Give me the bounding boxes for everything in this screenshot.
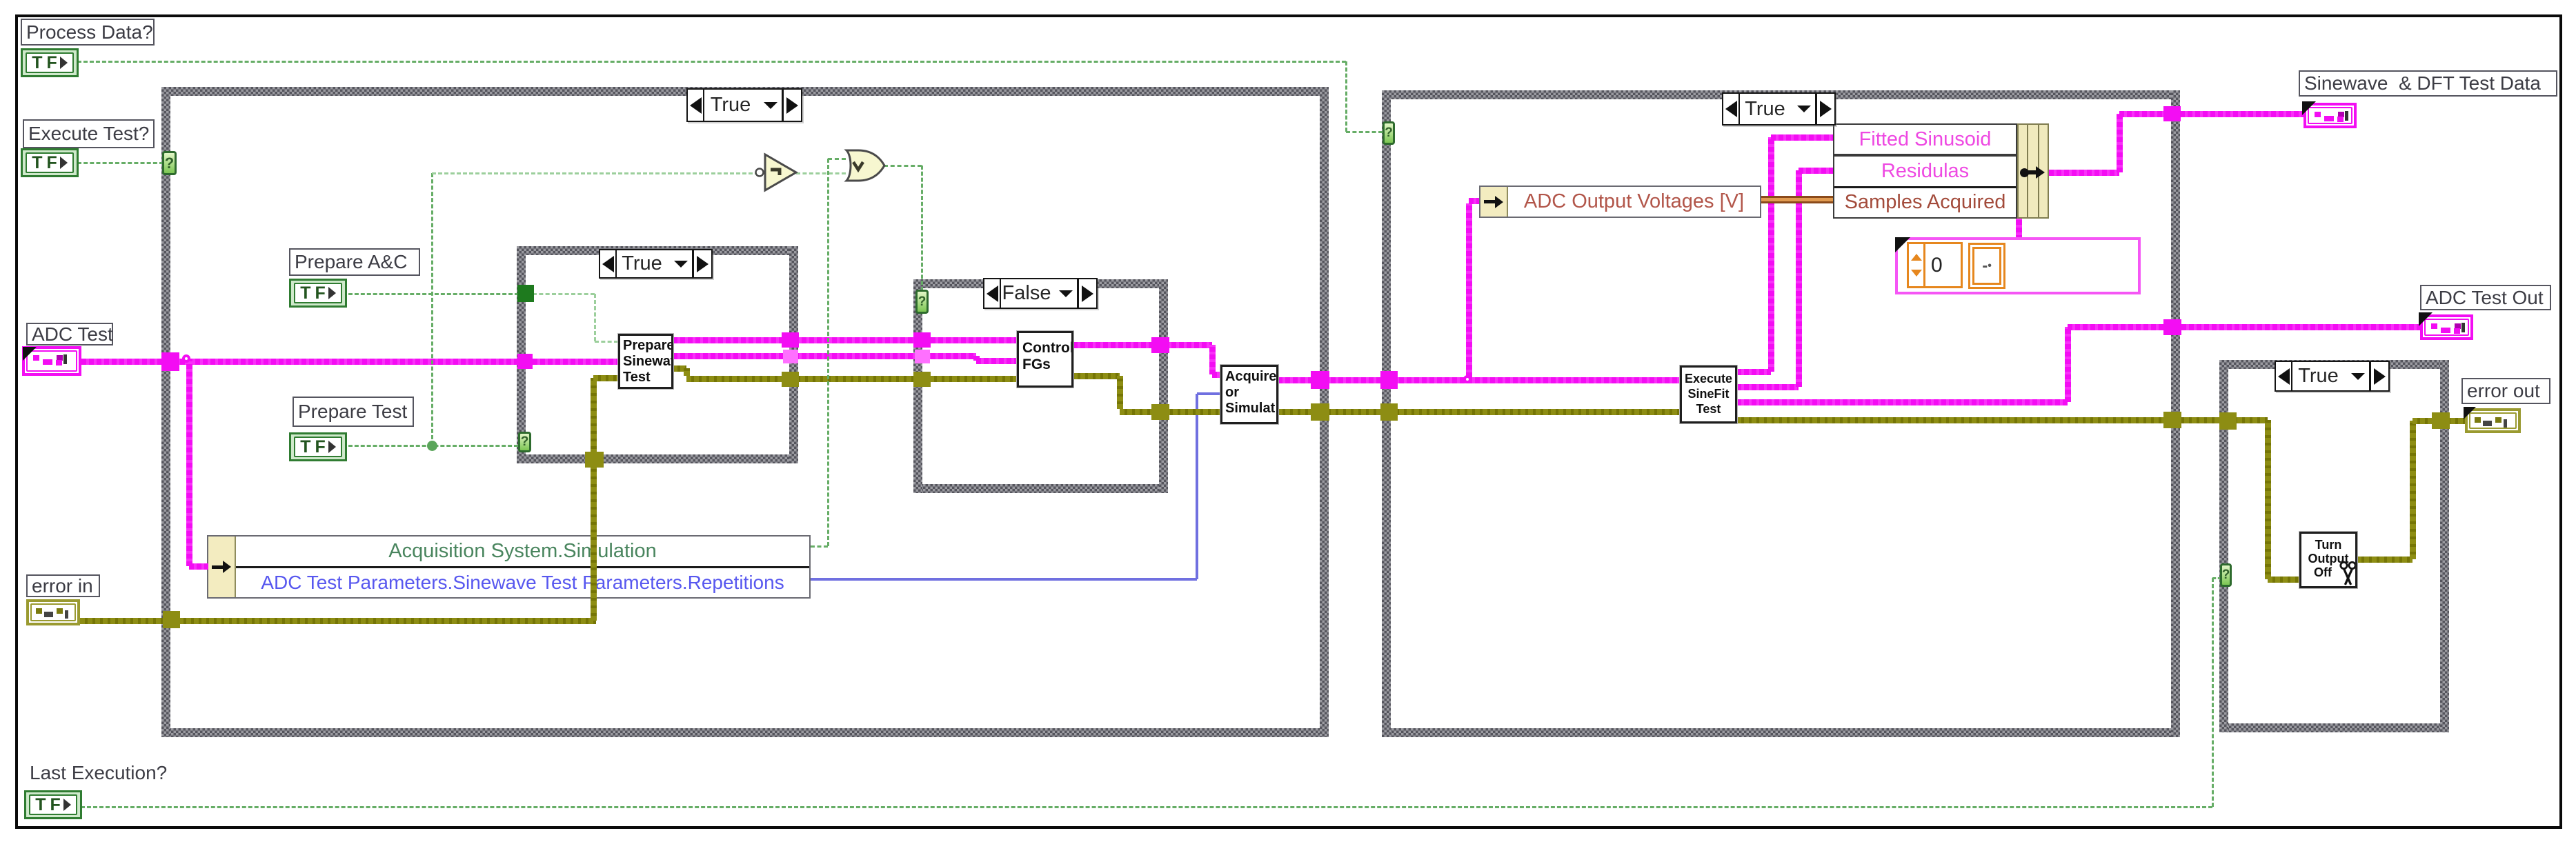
wire: Repetitions into Acquire node [1197, 392, 1220, 395]
NOT gate [756, 154, 797, 190]
wire: NOT output to OR gate [796, 172, 846, 174]
VI node: Prepare Sinewave Test [618, 334, 673, 389]
label: Execute Test? [23, 119, 155, 148]
tunnel: ADC Test on case 1 left border [161, 352, 179, 371]
wire: error out to terminal [2412, 418, 2468, 424]
wire: output 2 up to bundle [1796, 170, 1802, 387]
wire: ADC Test into Prepare Sinewave Test [525, 359, 618, 365]
wire: Execute ADC Test Out output [1736, 399, 2068, 405]
bundle output glyph [2020, 168, 2029, 177]
wire: Process Data? into case 2 selector [1346, 131, 1383, 133]
wire: Simulation output of local variable [811, 545, 828, 548]
wire: error into Acquire node [1120, 409, 1220, 415]
tunnel: error out of case 3 [2432, 412, 2450, 429]
wire: error down to Turn Output Off [2265, 420, 2271, 579]
wire: Last Execution? boolean to case 3 [81, 806, 2212, 808]
VI node: Turn Output Off [2299, 532, 2357, 588]
field Samples Acquired [1834, 188, 2016, 217]
wire: ADC Output Voltages data (orange/brown) into Samples Acquired [1761, 196, 1833, 203]
VI node: Acquire or Simulate [1220, 365, 1278, 424]
wire: Turn Output Off error output [2357, 557, 2412, 563]
tunnel: error into case 2 [1380, 403, 1398, 421]
wire: Prepare A&C vertical (light) [594, 294, 596, 341]
label: ADC Test [26, 323, 113, 345]
wire: Prepare output B [673, 353, 976, 359]
wire: ADC Test Out to terminal [2068, 324, 2420, 330]
wire: branch up to ADC Output Voltages [1466, 203, 1472, 377]
tunnel: error through inner True case bottom [585, 452, 604, 468]
case selector terminal ? (False case) [915, 290, 929, 314]
boolean control terminal: Last Execution? [24, 790, 82, 819]
wire: bundle output rise [2117, 114, 2123, 172]
case selector label: False [983, 278, 1098, 309]
case selector terminal ? (inner True case) [518, 432, 531, 452]
bundle-by-name node: Fitted Sinusoid / Residulas / Samples Acquired [1833, 123, 2049, 219]
corner wedge: array indicator [1895, 237, 1910, 252]
case selector label: True (inner case) [599, 249, 713, 279]
case selector label: True (case 3) [2275, 361, 2390, 392]
junction: branch to ADC Output Voltages [1463, 375, 1472, 383]
corner wedge: ADC Test [23, 347, 37, 361]
case structure 2 (Process Data? outer) border [0, 0, 1, 1]
cluster indicator terminal: ADC Test Out [2420, 314, 2473, 340]
tunnel: error out of False case [1151, 404, 1169, 420]
junction: ADC Test branch [182, 354, 190, 363]
wire: into OR gate top input [828, 158, 846, 160]
boolean control terminal: Prepare Test [289, 432, 347, 461]
tunnel: error out of inner True case [782, 372, 799, 387]
wire: error into Prepare node [593, 375, 618, 381]
wire: Prepare A&C to inner case tunnel [348, 293, 519, 295]
wire: ADC Test branch down to local variable [186, 361, 192, 566]
wire: Prepare A&C inside case (light) [533, 293, 595, 295]
local variable: ADC Output Voltages [V] [1479, 186, 1761, 218]
wire: Control FGs pink output [1073, 342, 1212, 348]
wire: Acquire output cluster to Execute SineFit Test [1278, 377, 1680, 383]
case selector label: True (case 2) [1722, 92, 1836, 126]
boolean control terminal: Process Data? [21, 48, 79, 77]
case structure F (inner False: Control FGs) border [0, 0, 1, 1]
wire: Control FGs error output [1073, 373, 1120, 379]
wire: Execute error output to case 3 [1736, 417, 2268, 423]
wire: pink jog down [1209, 345, 1216, 374]
label: Prepare A&C [289, 248, 420, 276]
case structure 3 (Last Execution?: Turn Output Off) border [0, 0, 1, 1]
boolean control terminal: Execute Test? [21, 148, 79, 177]
array indicator with index display [1895, 237, 2141, 294]
wire: into NOT gate [432, 172, 759, 174]
case selector terminal ? (case 2) [1383, 121, 1395, 145]
label: error out [2461, 378, 2550, 404]
wire: Repetitions vertical [1196, 394, 1198, 579]
wire: Process Data? vertical drop [1345, 61, 1347, 132]
wire: Execute output 2 [1736, 384, 1799, 390]
wire: into Fitted Sinusoid field [1771, 134, 1833, 141]
wire: error rise [2410, 421, 2416, 559]
wire: Prepare A&C into node (light) [595, 341, 618, 343]
wire: Last Execution? into case 3 selector [2212, 577, 2221, 579]
wire: bundle output [2049, 170, 2119, 176]
label: Prepare Test [293, 397, 414, 427]
VI node: Control FGs [1017, 331, 1073, 388]
field Fitted Sinusoid [1834, 125, 2016, 157]
wire: OR output down to False case selector [921, 166, 923, 291]
tunnel: error into False case [913, 372, 931, 387]
field Acquisition System.Simulation [236, 537, 809, 568]
tunnel: pink B out of inner True case [783, 350, 798, 363]
tunnel: Prepare A&C on inner True case [517, 285, 534, 302]
case structure 1a (inner True: Prepare Sinewave Test) border [0, 0, 1, 1]
wire: Process Data? boolean to case 2 [77, 61, 1346, 63]
tunnel: error in on case 1 left border [163, 611, 180, 628]
case selector terminal ? (case 1) [162, 151, 177, 175]
wire: Prepare output A to Control FGs [673, 337, 1017, 343]
wire: error into Turn Output Off [2268, 577, 2299, 583]
wire: into Acquire or Simulate [1212, 372, 1220, 378]
tunnel: pink out of False case [1151, 337, 1169, 353]
label: Process Data? [21, 19, 155, 46]
label: Last Execution? [26, 763, 184, 783]
wire: error in cluster [80, 618, 596, 624]
tunnel: Sinewave data out of case 2 [2163, 106, 2181, 121]
wire: to Sinewave & DFT Test Data terminal [2119, 111, 2303, 117]
field Residulas [1834, 157, 2016, 188]
tunnel: ADC Test on inner True case [517, 354, 533, 369]
wire: ADC Test cluster into case 1 [81, 359, 518, 365]
VI node: Execute SineFit Test [1680, 365, 1737, 423]
wire: Prepare error output [673, 365, 686, 372]
case selector terminal ? (case 3) [2220, 563, 2232, 587]
wire: Repetitions (blue) from local variable [811, 578, 1197, 581]
wire: Last Execution? vertical rise [2212, 578, 2214, 807]
wire: error up into Prepare Sinewave Test [591, 378, 597, 621]
wire: OR gate output [884, 165, 922, 167]
wire: error jog down [1117, 376, 1123, 409]
wire: output B into Control FGs [976, 358, 1017, 364]
wire: branch into local variable arrow [189, 563, 208, 570]
label: error in [26, 574, 100, 597]
tunnel: error out of case 1 [1311, 403, 1329, 421]
cluster control terminal: ADC Test [22, 346, 81, 376]
corner wedge: Sinewave & DFT Test Data [2302, 101, 2316, 115]
corner wedge: ADC Test Out [2419, 312, 2433, 326]
boolean control terminal: Prepare A&C [289, 279, 347, 308]
tunnel: cluster into case 2 [1380, 371, 1398, 389]
error cluster terminal: error in [26, 599, 80, 625]
tunnel: pink B into False case [915, 350, 930, 363]
error cluster terminal: error out [2465, 408, 2521, 433]
label: Sinewave & DFT Test Data [2299, 70, 2557, 97]
wire: Acquire error output to Execute node [1278, 409, 1680, 415]
case selector label: True (case 1) [686, 88, 802, 122]
junction: Prepare Test branch dot [427, 441, 437, 451]
cluster indicator terminal: Sinewave & DFT Test Data [2303, 103, 2357, 128]
wire: Execute output 1 [1736, 369, 1771, 375]
wire: Prepare Test to inner case selector [348, 445, 518, 447]
corner wedge: error out [2464, 407, 2476, 419]
wire: output B jog [973, 356, 980, 361]
tunnel: error out of case 2 [2163, 412, 2181, 428]
case structure 1 (Execute Test? outer) border [0, 0, 1, 1]
wire: into Residulas field [1799, 168, 1833, 174]
wire: ADC Test Out rise [2065, 327, 2071, 402]
wire: Simulation boolean up to OR gate [827, 159, 829, 546]
unbundle/local variable node: Acquisition System.Simulation / ADC Test Parameters [207, 535, 811, 599]
wire: error jog down [684, 368, 690, 376]
wire: output 1 up to bundle [1768, 137, 1774, 372]
wire: error to Control FGs [686, 376, 1017, 382]
tunnel: cluster out of case 1 [1311, 371, 1329, 389]
tunnel: pink A out of inner True case [782, 332, 799, 348]
tunnel: error into case 3 [2219, 412, 2237, 430]
label: ADC Test Out [2420, 285, 2551, 310]
field ADC Test Parameters.Sinewave Test Parameters.Repetitions [236, 568, 809, 598]
tunnel: pink A into False case [913, 332, 931, 348]
wire: into ADC Output Voltages arrow [1469, 198, 1479, 204]
tunnel: ADC Test Out out of case 2 [2163, 319, 2181, 335]
NOT gate and OR gate [753, 147, 891, 195]
wire: bundle output branch down to array indicator [2016, 219, 2022, 240]
OR gate [846, 150, 884, 181]
wire: Execute Test? to case 1 selector [77, 162, 164, 164]
wire: Prepare Test branch up to NOT gate [431, 173, 433, 445]
